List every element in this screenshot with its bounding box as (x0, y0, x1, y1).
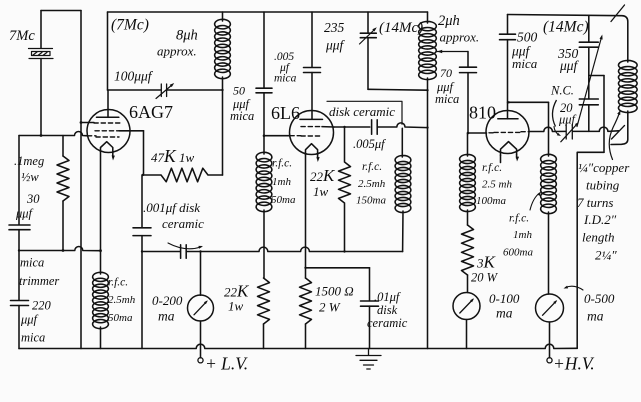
slash feedline mid (612, 126, 625, 140)
resistor R .1meg (57, 156, 69, 201)
wire .01 branch upper (369, 268, 371, 301)
tube V3 810 envelope (486, 111, 529, 154)
svg-text:2 W: 2 W (319, 300, 341, 315)
svg-text:500: 500 (517, 30, 538, 45)
svg-text:+ L.V.: + L.V. (205, 354, 248, 374)
wire choke feed vert (548, 102, 550, 156)
svg-text:0-500: 0-500 (584, 291, 615, 306)
svg-text:22K: 22K (310, 166, 336, 185)
tube 6L6 grid1 dashes (301, 126, 322, 128)
resistor 47K 1w (144, 168, 223, 182)
wire 810 plate line upper (507, 15, 509, 35)
meter M2 0-100ma (453, 293, 480, 320)
wire 6AG7 cathode drop (100, 152, 102, 275)
svg-text:150ma: 150ma (356, 195, 386, 207)
arrow copper-pointer (609, 114, 619, 160)
svg-text:.1meg: .1meg (14, 154, 44, 168)
svg-text:0-100: 0-100 (489, 291, 520, 306)
svg-text:approx.: approx. (440, 30, 480, 45)
svg-text:mica: mica (274, 73, 297, 85)
svg-text:810: 810 (469, 103, 496, 123)
tube 6AG7 plate bar (97, 116, 119, 118)
inductor RFC 2.5mh 50ma (93, 272, 109, 328)
capacitor 220uuF mica (11, 301, 29, 306)
wire top rail y12 (108, 11, 428, 13)
svg-text:I.D.2″: I.D.2″ (583, 212, 617, 227)
svg-text:approx.: approx. (157, 44, 197, 59)
capacitor 500uuF mica (500, 34, 516, 40)
wire 350 line lower (588, 47, 590, 75)
svg-text:μμf: μμf (325, 38, 346, 53)
svg-text:0-200: 0-200 (152, 293, 183, 308)
inductor RFC 2.5mh 100ma (460, 133, 476, 212)
wire rfc to rail (100, 327, 102, 349)
svg-text:1500 Ω: 1500 Ω (315, 284, 354, 299)
svg-text:r.f.c.: r.f.c. (108, 277, 128, 289)
svg-text:μμf: μμf (20, 313, 39, 327)
capacitor .005uF mica (304, 68, 321, 73)
capacitor 50uuF mica (256, 88, 272, 93)
wire crystal upper lead (40, 11, 42, 49)
svg-text:2.5mh: 2.5mh (358, 178, 386, 190)
node x427-gridline (426, 126, 428, 128)
svg-text:r.f.c.: r.f.c. (362, 161, 382, 173)
svg-text:+H.V.: +H.V. (553, 354, 595, 374)
tube 810 filament left lead (500, 155, 502, 162)
resistor 1500ohm 2w (300, 278, 312, 324)
wire .1meg top stub (62, 136, 64, 157)
tube 810 filament (501, 142, 517, 156)
wire grid-return vertical x81 (80, 11, 82, 349)
svg-text:2μh: 2μh (438, 13, 460, 29)
svg-text:(14Mc): (14Mc) (543, 19, 589, 36)
tube 6AG7 cathode arrow (112, 152, 114, 157)
svg-text:¼″copper: ¼″copper (578, 160, 630, 175)
svg-text:r.f.c.: r.f.c. (482, 162, 502, 174)
tube V2 6L6 envelope (290, 111, 334, 155)
capacitor 350uuF variable (579, 42, 598, 47)
svg-text:6L6: 6L6 (271, 103, 300, 123)
wire 50uuf line upper (263, 12, 265, 88)
capacitor 235 arrow (360, 29, 376, 44)
wire cathode bus y250 (19, 247, 101, 251)
tube 6AG7 grid2 out (119, 130, 144, 132)
wire link lower (611, 111, 628, 145)
svg-text:.001μf disk: .001μf disk (143, 200, 200, 215)
capacitor 235uuF variable (360, 33, 376, 38)
wire left column mid (18, 230, 20, 300)
svg-text:disk ceramic: disk ceramic (329, 104, 395, 119)
svg-text:ma: ma (587, 309, 604, 324)
wire LV bus with hops (186, 247, 402, 251)
wire left column upper (18, 136, 20, 225)
svg-text:220: 220 (32, 299, 52, 313)
svg-text:8μh: 8μh (176, 28, 198, 44)
node crystal to grid line (40, 134, 43, 137)
svg-text:.005μf: .005μf (353, 137, 386, 151)
svg-text:2.5 mh: 2.5 mh (482, 179, 512, 191)
wire 810 grid stub (468, 132, 487, 134)
wire label box left (577, 152, 604, 348)
svg-text:50: 50 (233, 84, 245, 98)
svg-text:mica: mica (512, 56, 538, 71)
svg-text:235: 235 (324, 20, 345, 35)
node tank1 br corner (221, 89, 223, 91)
tube 6L6 grid2 dashes (290, 135, 321, 137)
wire .1meg bottom stub (62, 201, 64, 251)
svg-text:50ma: 50ma (108, 312, 133, 324)
svg-text:mica: mica (435, 92, 459, 106)
tube 6L6 grid1 out (322, 126, 334, 128)
svg-text:3K: 3K (476, 253, 497, 272)
meter M1 0-200ma (188, 295, 214, 321)
svg-text:30: 30 (26, 192, 40, 206)
arrow ceramic-to-cap (168, 243, 201, 249)
inductor RFC 2.5mh 150ma (395, 128, 411, 251)
svg-text:N.C.: N.C. (550, 84, 574, 98)
wire NC stub lower (588, 105, 590, 132)
capacitor 20uuF NC variable plates (566, 124, 572, 139)
capacitor 350 arrow (577, 39, 601, 127)
wire .001 branch upper (141, 175, 143, 228)
wire 1500 to rail (305, 324, 307, 349)
svg-text:1w: 1w (313, 184, 329, 199)
tube 810 grid dashes (489, 132, 529, 133)
label-box disk ceramic (327, 101, 402, 124)
node 810 grid tee (467, 132, 470, 135)
wire screen line to x427 w/ hop (377, 123, 427, 128)
svg-text:ma: ma (496, 306, 513, 321)
terminal +HV (547, 358, 552, 363)
wire tank1 left edge (107, 12, 109, 90)
svg-text:mica: mica (20, 256, 44, 270)
wire rfc to 22K (thru bus hop) (263, 210, 265, 278)
terminal +LV (198, 358, 203, 363)
wire top link crystal-to-grid-return (41, 10, 81, 12)
wire choke feed horiz (508, 101, 549, 103)
node y250 left end (18, 249, 20, 251)
svg-text:mica: mica (21, 331, 45, 345)
resistor 3K 20W (462, 225, 474, 275)
capacitor 100uuF variable plates (161, 84, 166, 97)
wire .01 branch lower (369, 306, 371, 348)
wire .01 branch horiz (306, 267, 370, 269)
svg-text:μμf: μμf (558, 113, 577, 127)
svg-text:tubing: tubing (586, 178, 620, 193)
wire control-grid line y135 (19, 132, 88, 136)
tube 6L6 plate bar (300, 118, 323, 120)
svg-text:disk: disk (377, 303, 398, 317)
wire 810 plate line lower (507, 40, 509, 119)
wire tank2 bottom (368, 88, 428, 91)
resistor 22K 1W mid (339, 127, 351, 252)
wire 235 line lower (367, 38, 369, 90)
resistor 22K 1w (grid leak) (258, 278, 270, 324)
node 22Kmid bottom tee (343, 250, 345, 252)
wire NC stub upper (588, 76, 590, 99)
svg-text:(14Mc): (14Mc) (379, 20, 423, 36)
tube V1 6AG7 envelope (87, 110, 130, 153)
capacitor 20uuF NC (579, 99, 598, 105)
capacitor .001uF disk (vertical branch) (133, 228, 151, 236)
svg-text:length: length (582, 230, 615, 245)
wire coil bottom to 47K (222, 77, 224, 175)
wire left column lower (18, 306, 20, 349)
capacitor .01uF disk ceramic (361, 301, 379, 306)
meter M3 0-500ma (536, 294, 564, 322)
arrow rfc600-pointer (530, 193, 540, 210)
tube 6AG7 grid2 dashes (95, 130, 119, 132)
svg-text:mica: mica (230, 109, 254, 123)
svg-text:1mh: 1mh (513, 229, 532, 241)
svg-text:50ma: 50ma (271, 194, 296, 206)
svg-text:1mh: 1mh (272, 176, 291, 188)
wire meter1 lower (200, 321, 202, 358)
node bus left tee (141, 250, 143, 252)
arrow coil tap (437, 50, 442, 53)
wire 6L6 cathode drop (thru bus hop) (305, 155, 307, 279)
inductor L3 antenna link (618, 60, 637, 112)
crystal Y1 7Mc (29, 49, 54, 59)
node cathode junction y250 (99, 249, 102, 252)
svg-text:r.f.c.: r.f.c. (272, 158, 292, 170)
svg-text:2.5mh: 2.5mh (108, 294, 136, 306)
svg-text:100μμf: 100μμf (114, 69, 154, 84)
svg-text:μμf: μμf (15, 207, 34, 221)
svg-text:ceramic: ceramic (162, 216, 204, 231)
wire screen line 6L6 right (334, 126, 370, 128)
svg-text:ceramic: ceramic (367, 316, 408, 330)
tube 6AG7 cathode (101, 142, 113, 152)
wire 235 line upper (367, 12, 369, 33)
node 6L6 grid tee (263, 134, 266, 137)
tube 6L6 plate lead (311, 12, 313, 67)
svg-text:.01μf: .01μf (374, 290, 401, 304)
node grid-return/suppressor tee (80, 121, 83, 124)
capacitor 30uuF trimmer (9, 225, 30, 230)
inductor RFC 1mh 50ma (256, 152, 272, 211)
slash feedline top (611, 5, 625, 22)
svg-text:1w: 1w (228, 299, 244, 314)
tube 6L6 cathode arrow (317, 154, 319, 158)
svg-text:½w: ½w (21, 170, 39, 184)
wire 6L6 grid stub (264, 135, 290, 137)
arrow 0500-pointer (566, 286, 584, 290)
svg-text:2¼″: 2¼″ (595, 248, 617, 263)
node meter tee (199, 250, 201, 252)
capacitor .001uF disk (bus) (181, 245, 187, 259)
wire 350 line upper (588, 16, 590, 43)
capacitor .005uF disk ceramic (372, 120, 378, 135)
wire jog to x604 (589, 75, 604, 77)
node x427-tankbottom (426, 89, 428, 91)
svg-text:μμf: μμf (559, 58, 580, 73)
wire rfc to 3K (467, 210, 469, 225)
wire 22K to rail (263, 324, 265, 349)
wire coil top stub (222, 12, 224, 21)
svg-text:ma: ma (158, 309, 175, 324)
capacitor NC arrow (561, 124, 578, 142)
wire tap down (467, 52, 469, 68)
node 22Kmid top (343, 126, 345, 128)
wire x427 column (427, 78, 429, 349)
capacitor 70uuF mica (460, 67, 477, 72)
tube 6AG7 grid3 dashes (88, 136, 120, 137)
ground symbol (356, 349, 381, 370)
svg-text:7Mc: 7Mc (9, 28, 35, 44)
wire tank1 bottom w/ varcap gap (108, 89, 223, 91)
node .1meg bottom (62, 249, 65, 252)
svg-text:70: 70 (440, 66, 452, 80)
inductor L1 8uh (215, 19, 231, 78)
wire x604 drop (hop tank line) (603, 76, 605, 153)
svg-text:100ma: 100ma (476, 195, 506, 207)
node plate-choke tee (508, 101, 510, 103)
wire plate lead lower (311, 73, 313, 120)
arrow NC-pointer (554, 127, 559, 135)
inductor L2 2uh (419, 12, 437, 80)
svg-text:trimmer: trimmer (19, 274, 59, 288)
node cathode-01 tee (304, 267, 306, 269)
tube 6L6 cathode (306, 144, 318, 155)
tube 810 filament arrow (516, 155, 518, 158)
wire LV bus left seg (142, 251, 180, 253)
wire 70 to grid junction (467, 73, 469, 133)
wire screen corner (143, 131, 145, 175)
wire top rail right (508, 15, 628, 63)
inductor RFC 1mh 600ma (541, 154, 557, 213)
svg-text:7 turns: 7 turns (577, 195, 613, 210)
svg-text:6AG7: 6AG7 (129, 102, 173, 122)
wire meter1 upper (200, 252, 202, 296)
wire tank bottom line (529, 127, 619, 131)
label (20 (552, 100, 556, 127)
wire suppressor line to 6AG7 (81, 122, 94, 124)
svg-text:(7Mc): (7Mc) (111, 17, 149, 34)
capacitor 100uuF arrow (156, 85, 173, 99)
tube 6AG7 grid1 dashes (94, 122, 120, 124)
svg-text:20 W: 20 W (471, 271, 499, 285)
svg-text:r.f.c.: r.f.c. (509, 213, 529, 225)
wire 3K to meter (467, 275, 469, 292)
wire meter2 to rail (466, 320, 468, 349)
tube 6AG7 plate lead (107, 90, 109, 117)
node 47K left (142, 174, 144, 176)
wire 50uuf line lower (263, 93, 265, 154)
wire bottom rail (19, 344, 577, 348)
wire .001 branch lower (141, 236, 143, 349)
wire meter3 to rail (549, 322, 551, 358)
svg-text:600ma: 600ma (503, 247, 533, 259)
tube 810 plate bar (498, 118, 518, 120)
wire crystal lower lead (40, 59, 42, 136)
wire choke to meter (548, 212, 550, 294)
